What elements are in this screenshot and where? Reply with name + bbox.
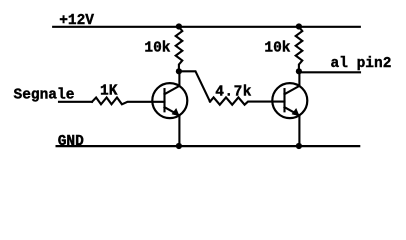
svg-text:GND: GND <box>58 134 84 150</box>
resistor 10k right (vertical zigzag) <box>296 27 303 71</box>
node C dot (10k right bottom) <box>296 68 302 74</box>
transistor Q1 emitter arrowhead <box>172 108 180 116</box>
resistor 10k left (vertical zigzag) <box>176 27 183 71</box>
node dot +12V / 10k left <box>176 23 182 29</box>
node dot GND / Q2 emitter <box>296 143 302 149</box>
svg-text:4.7k: 4.7k <box>215 84 252 100</box>
svg-text:10k: 10k <box>264 41 290 57</box>
svg-text:10k: 10k <box>144 41 170 57</box>
svg-text:1K: 1K <box>100 83 118 99</box>
wire +12V rail <box>53 26 360 28</box>
svg-text:al pin2: al pin2 <box>331 56 392 72</box>
wire GND rail <box>57 145 360 147</box>
node dot +12V / 10k right <box>296 23 302 29</box>
svg-text:Segnale: Segnale <box>14 87 75 103</box>
svg-text:+12V: +12V <box>59 13 94 29</box>
resistor 4.7k (horizontal zigzag) <box>210 97 285 104</box>
wire Q2 collector to node C <box>298 71 300 86</box>
transistor Q1 emitter diagonal <box>165 107 180 115</box>
wire Q1 collector to node B <box>178 71 180 86</box>
transistor Q2 emitter diagonal <box>285 107 300 115</box>
wire node B to 4.7k (horizontal then diagonal) <box>179 71 210 101</box>
transistor Q1 circle <box>152 83 187 118</box>
transistor Q2 base bar <box>283 89 285 111</box>
transistor Q1 collector diagonal <box>165 86 180 94</box>
transistor Q2 emitter arrowhead <box>292 108 300 116</box>
wire Q2 emitter to GND <box>298 115 300 146</box>
wire al pin2 output <box>299 71 360 73</box>
resistor 1K (horizontal zigzag) <box>92 98 165 105</box>
transistor Q1 base bar <box>163 89 165 111</box>
node B dot (10k left bottom) <box>176 68 182 74</box>
wire Segnale input <box>59 101 92 103</box>
transistor Q2 circle <box>272 83 307 118</box>
node dot GND / Q1 emitter <box>176 143 182 149</box>
transistor Q2 collector diagonal <box>285 86 300 94</box>
wire Q1 emitter to GND <box>178 115 180 146</box>
